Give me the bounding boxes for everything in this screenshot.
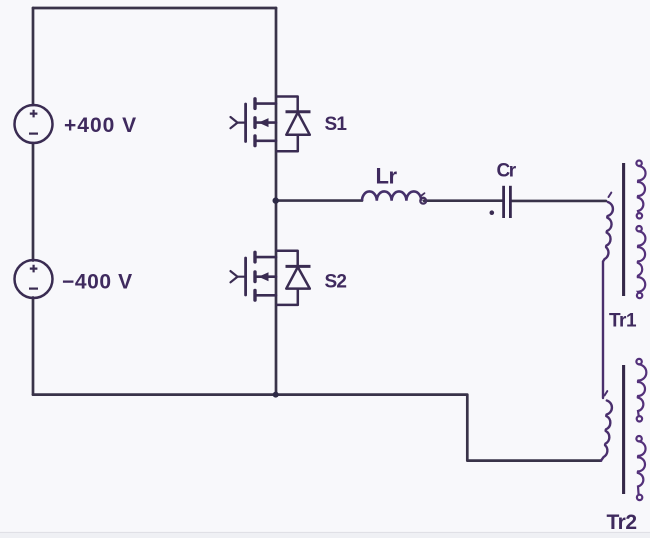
svg-text:S1: S1 — [325, 114, 348, 135]
polarity dot of Cr — [490, 210, 495, 215]
arrow loop on wire after Lr — [420, 198, 426, 204]
node bottom junction — [273, 392, 279, 398]
node midpoint — [273, 197, 279, 203]
transformer Tr1 core — [622, 163, 625, 296]
transformer Tr1 secondary lower — [636, 226, 645, 298]
svg-text:Tr1: Tr1 — [609, 311, 637, 332]
svg-text:Tr2: Tr2 — [607, 511, 637, 534]
mosfet S2 — [231, 252, 277, 300]
bottom grey strip — [0, 533, 650, 538]
svg-text:+400 V: +400 V — [64, 114, 137, 137]
wire left rail middle — [32, 143, 35, 261]
svg-text:−400 V: −400 V — [62, 270, 133, 293]
wire capacitor to Tr1 — [511, 200, 606, 203]
svg-text:Lr: Lr — [376, 164, 398, 189]
transformer Tr2 secondary lower — [636, 436, 645, 500]
transformer Tr2 primary winding — [601, 391, 612, 461]
wire top horizontal — [33, 7, 276, 10]
transformer Tr1 secondary upper — [636, 161, 645, 219]
wire left rail lower — [32, 298, 35, 395]
svg-text:Cr: Cr — [497, 161, 517, 182]
wire left rail upper — [32, 8, 35, 105]
capacitor Cr — [504, 186, 511, 218]
transformer Tr2 secondary upper — [636, 359, 646, 422]
voltage source V2 — [15, 260, 53, 298]
wire bottom horizontal — [33, 395, 601, 461]
inductor Lr — [362, 191, 421, 200]
svg-text:S2: S2 — [325, 272, 347, 293]
diode of S1 — [276, 97, 311, 152]
mosfet S1 — [231, 99, 277, 146]
transformer Tr2 core — [622, 365, 625, 494]
wire midpoint to inductor — [278, 199, 363, 202]
transformer Tr1 primary winding — [603, 193, 613, 398]
wire half-bridge rail — [275, 8, 278, 395]
diode of S2 — [276, 251, 311, 305]
wire inductor to capacitor — [424, 199, 503, 202]
voltage source V1 — [15, 105, 53, 143]
